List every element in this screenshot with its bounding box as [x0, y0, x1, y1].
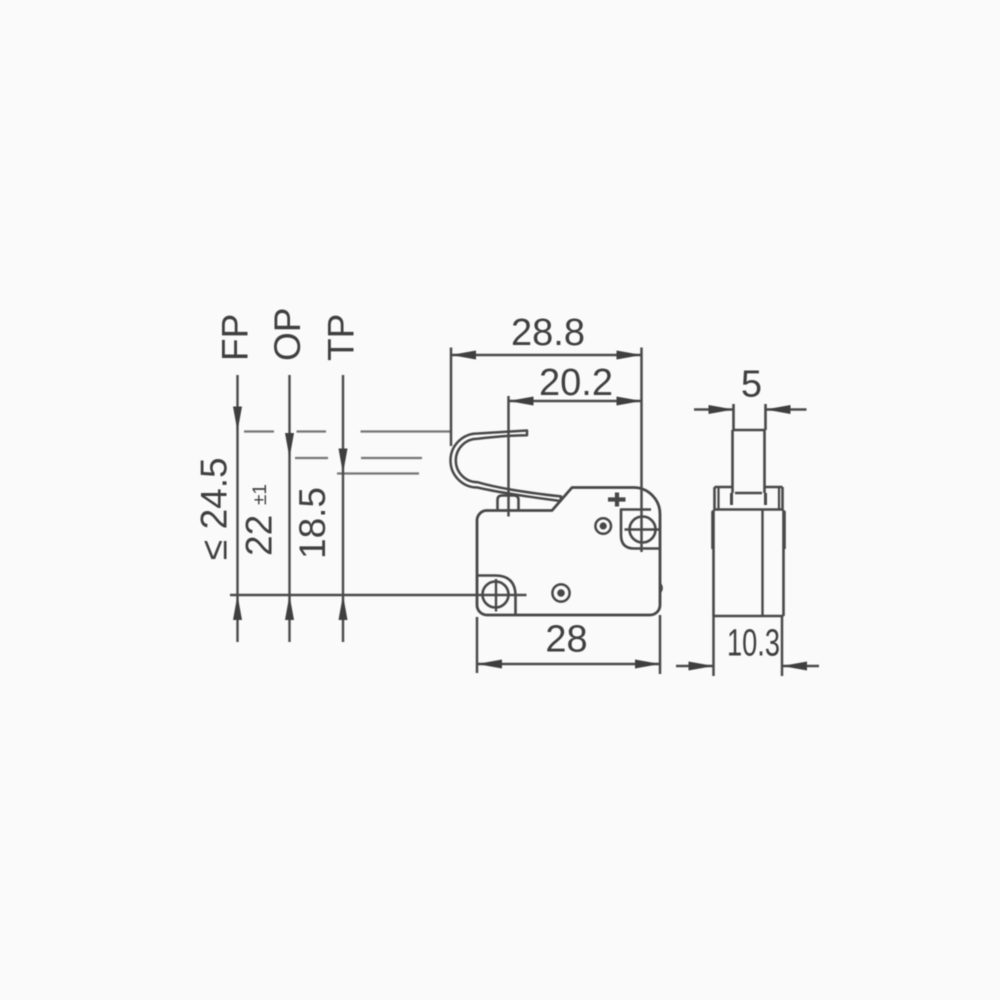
svg-text:TP: TP [321, 314, 362, 361]
10.3 left arrow (points right) [689, 662, 714, 671]
TP up arrow at baseline [339, 595, 348, 620]
svg-text:22: 22 [239, 515, 280, 556]
5 dimension line left part [694, 408, 734, 411]
svg-text:±1: ±1 [250, 484, 271, 505]
rivet top-right [595, 518, 611, 534]
5 dimension line right part [766, 408, 807, 411]
switch body outline (front view) [477, 488, 660, 616]
boss around top-right mounting hole [621, 510, 659, 549]
svg-text:≤ 24.5: ≤ 24.5 [194, 457, 235, 560]
body bottom (side view) [714, 615, 784, 618]
TP dimension line [342, 375, 344, 642]
OP dimension line [288, 375, 290, 642]
extension right (side) [781, 616, 784, 676]
baseline [230, 594, 527, 597]
28 right arrow [635, 660, 660, 669]
extension line left of 20.2 (through plunger) [507, 396, 510, 517]
28 left arrow [477, 660, 502, 669]
OP reference line [295, 457, 422, 459]
svg-text:28.8: 28.8 [511, 312, 585, 354]
28.8 right arrow [617, 351, 642, 360]
body right wall thickness [784, 511, 786, 549]
top-right hole crosshair [625, 528, 661, 530]
bottom-left mounting hole [483, 582, 509, 608]
extension line left of 28.8 [450, 348, 453, 447]
bottom-left hole vertical crosshair [495, 579, 497, 612]
FP up arrow at baseline [233, 595, 242, 620]
cap top (side view) [715, 486, 783, 489]
5 right arrow (points left) [766, 405, 791, 414]
lever (simulated roller spring lever, front view) [450, 431, 561, 502]
cap/body seam [714, 508, 783, 511]
extension left [476, 617, 479, 673]
svg-text:10.3: 10.3 [727, 623, 780, 665]
5 left arrow (points right) [709, 405, 734, 414]
28.8 dimension line [451, 354, 642, 357]
extension line right shared 28.8/20.2 through hole [640, 348, 643, 553]
bump on right edge [660, 584, 662, 593]
rivet bottom-left [552, 584, 569, 601]
extension right [659, 615, 662, 674]
svg-text:OP: OP [267, 308, 308, 361]
plunger socket bars [732, 493, 766, 505]
TP reference line [337, 472, 419, 474]
svg-text:28: 28 [545, 619, 587, 661]
svg-text:FP: FP [215, 314, 256, 361]
svg-text:18.5: 18.5 [292, 487, 333, 559]
plus mark [608, 493, 626, 507]
FP down arrow [233, 407, 242, 432]
plunger (side view) [733, 430, 765, 493]
svg-text:5: 5 [741, 364, 762, 406]
10.3 dimension line left part [676, 665, 714, 668]
OP up arrow at baseline [285, 595, 294, 620]
20.2 left arrow [509, 397, 534, 406]
top-right mounting hole [630, 517, 656, 543]
boss around bottom-left mounting hole [477, 576, 516, 615]
cover seam (side view) [761, 510, 763, 615]
lever cross-section (side view) [734, 404, 766, 430]
TP down arrow [339, 449, 348, 474]
10.3 right arrow (points left) [782, 662, 807, 671]
cap outer walls [715, 487, 783, 510]
28.8 left arrow [451, 351, 476, 360]
FP reference line [244, 430, 450, 432]
svg-text:20.2: 20.2 [539, 362, 613, 404]
FP dimension line [236, 375, 238, 642]
20.2 dimension line [509, 400, 642, 403]
extension left (side) [712, 616, 715, 676]
body right wall (side view) [782, 510, 785, 616]
body left wall (side view) [712, 510, 715, 616]
28 dimension line [477, 663, 660, 666]
plunger (front view) [498, 496, 519, 511]
20.2 right arrow [617, 397, 642, 406]
10.3 dimension line right part [782, 665, 819, 668]
cap inner walls [719, 487, 780, 510]
body left wall thickness [711, 511, 713, 549]
OP down arrow [285, 433, 294, 458]
